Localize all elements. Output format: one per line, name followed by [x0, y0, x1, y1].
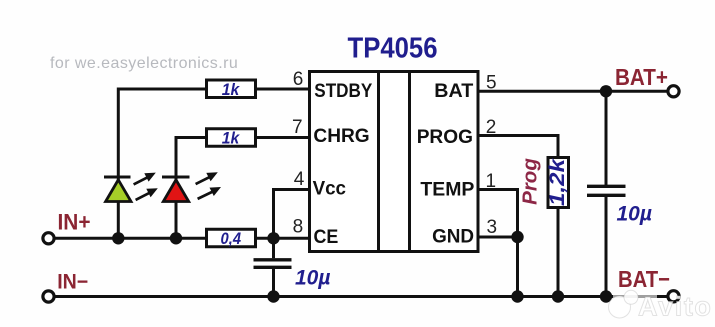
capacitor C2 10u [587, 186, 626, 296]
LED D1 green [104, 177, 131, 238]
svg-text:4: 4 [294, 169, 305, 190]
junction dot BAT+ [600, 85, 612, 97]
svg-text:for we.easyelectronics.ru: for we.easyelectronics.ru [50, 55, 238, 72]
wire R4 to rail [557, 208, 560, 297]
junction dot D1-IN+ [112, 232, 124, 244]
svg-text:BAT: BAT [434, 80, 473, 102]
watermark Avito logo [613, 292, 657, 302]
wire IN- bottom rail [56, 295, 668, 298]
wire R1 to LED D1 branch [118, 89, 205, 177]
svg-text:3: 3 [487, 217, 498, 238]
capacitor C1 10u [254, 260, 292, 297]
terminal IN- [43, 291, 54, 302]
wire PROG to R4 [478, 136, 558, 159]
terminal BAT+ [668, 86, 679, 97]
svg-text:Vcc: Vcc [313, 178, 347, 200]
wire TEMP branch [478, 190, 518, 297]
svg-text:TEMP: TEMP [420, 178, 474, 200]
svg-text:10µ: 10µ [295, 267, 330, 290]
junction dot Vcc-CE [267, 232, 279, 244]
resistor R2 1k [207, 129, 256, 148]
junction dot GND-TEMP [511, 231, 523, 243]
svg-text:CHRG: CHRG [313, 125, 369, 147]
LED D1 light arrows [134, 173, 158, 200]
junction dot C1-rail [267, 290, 279, 302]
resistor R1 1k [207, 80, 256, 99]
junction dot C2-rail [600, 290, 612, 302]
svg-text:10µ: 10µ [617, 203, 652, 226]
terminal BAT- [668, 291, 679, 302]
svg-text:PROG: PROG [417, 126, 473, 148]
svg-text:1k: 1k [222, 129, 241, 148]
wire R3 to CE [256, 237, 310, 240]
wire BAT to BAT+ [478, 90, 667, 93]
wire Vcc branch [274, 190, 311, 259]
junction dot R4-rail [552, 290, 564, 302]
svg-text:7: 7 [292, 117, 303, 138]
junction dot TEMP-rail [511, 290, 523, 302]
svg-text:TP4056: TP4056 [348, 33, 438, 65]
junction dot D2-IN+ [170, 232, 182, 244]
svg-text:1,2k: 1,2k [546, 157, 569, 206]
svg-text:GND: GND [432, 226, 474, 248]
svg-text:Avito: Avito [638, 292, 713, 322]
wire R2 to LED D2 branch [176, 138, 205, 178]
svg-text:BAT+: BAT+ [615, 64, 668, 90]
resistor R3 0,4 [207, 229, 256, 248]
svg-text:IN+: IN+ [58, 209, 91, 234]
LED D2 light arrows [196, 172, 221, 199]
svg-text:BAT−: BAT− [618, 266, 670, 292]
LED D2 red [162, 177, 190, 238]
wire IN+ to R3 [56, 237, 206, 240]
svg-text:STDBY: STDBY [314, 80, 372, 102]
svg-text:0,4: 0,4 [221, 229, 242, 248]
svg-text:1k: 1k [222, 80, 241, 99]
svg-text:8: 8 [293, 217, 304, 238]
wire CHRG to R2 [256, 136, 310, 139]
svg-text:Prog: Prog [519, 158, 542, 205]
IC U1 body [310, 72, 479, 252]
wire BAT+ to C2 [605, 91, 608, 186]
svg-text:IN−: IN− [57, 270, 88, 293]
svg-text:CE: CE [314, 226, 339, 248]
resistor R4 1,2k [546, 157, 569, 207]
terminal IN+ [43, 233, 54, 244]
wire GND to TEMP branch [478, 236, 518, 239]
svg-text:6: 6 [293, 69, 304, 90]
wire STDBY to R1 [256, 88, 310, 91]
